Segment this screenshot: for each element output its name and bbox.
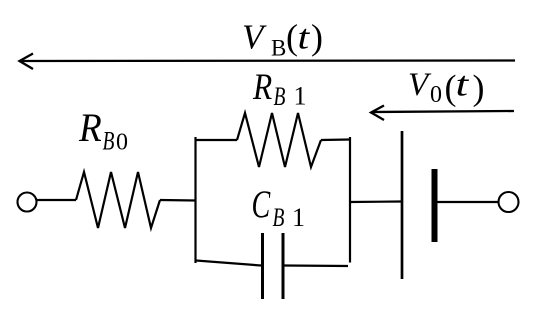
capacitor CB1 right plate — [282, 233, 285, 299]
svg-text:): ) — [311, 17, 323, 57]
wire CB1 to bottom-right corner — [284, 264, 348, 267]
battery short thick plate (-) — [432, 169, 438, 242]
wire from parallel block to battery — [350, 200, 401, 203]
node: left terminal circle — [18, 193, 37, 212]
svg-text:(: ( — [286, 17, 298, 57]
svg-text:0: 0 — [430, 82, 442, 108]
svg-text:C: C — [252, 184, 271, 226]
label CB1 — [252, 184, 306, 232]
label VB(t) voltage across whole branch — [242, 17, 323, 61]
svg-text:): ) — [473, 68, 485, 108]
wire from left terminal to RB0 — [37, 199, 76, 201]
wire from RB0 to parallel block left node — [160, 199, 196, 202]
svg-text:1: 1 — [292, 203, 305, 232]
wire RB1 to top-right corner — [321, 138, 350, 141]
svg-text:V: V — [242, 18, 267, 57]
svg-text:B: B — [273, 203, 285, 231]
svg-text:B: B — [103, 127, 115, 155]
label RB0 — [78, 107, 128, 156]
label RB1 — [252, 67, 306, 111]
svg-text:t: t — [298, 19, 311, 57]
resistor RB0 zigzag — [76, 172, 160, 228]
resistor RB1 zigzag — [237, 113, 321, 167]
wire bottom-left to CB1 — [196, 261, 261, 266]
battery long thin plate (+) — [401, 131, 404, 279]
wire top-left to RB1 — [195, 139, 237, 141]
svg-text:R: R — [78, 107, 102, 150]
svg-text:B: B — [274, 82, 286, 110]
capacitor CB1 left plate — [261, 233, 264, 299]
node: parallel block right vertical wire — [349, 137, 351, 263]
svg-text:1: 1 — [294, 82, 307, 111]
arrow for VB(t) pointing left — [20, 54, 516, 70]
wire from battery to right terminal — [438, 201, 499, 203]
node: parallel block left vertical wire — [194, 137, 196, 263]
svg-text:B: B — [271, 36, 286, 61]
node: right terminal circle — [499, 192, 519, 212]
label V0(t) source voltage — [408, 64, 485, 108]
svg-text:0: 0 — [116, 130, 128, 156]
svg-text:t: t — [456, 64, 471, 103]
arrow for V0(t) pointing left — [371, 106, 514, 121]
svg-text:R: R — [252, 67, 272, 108]
